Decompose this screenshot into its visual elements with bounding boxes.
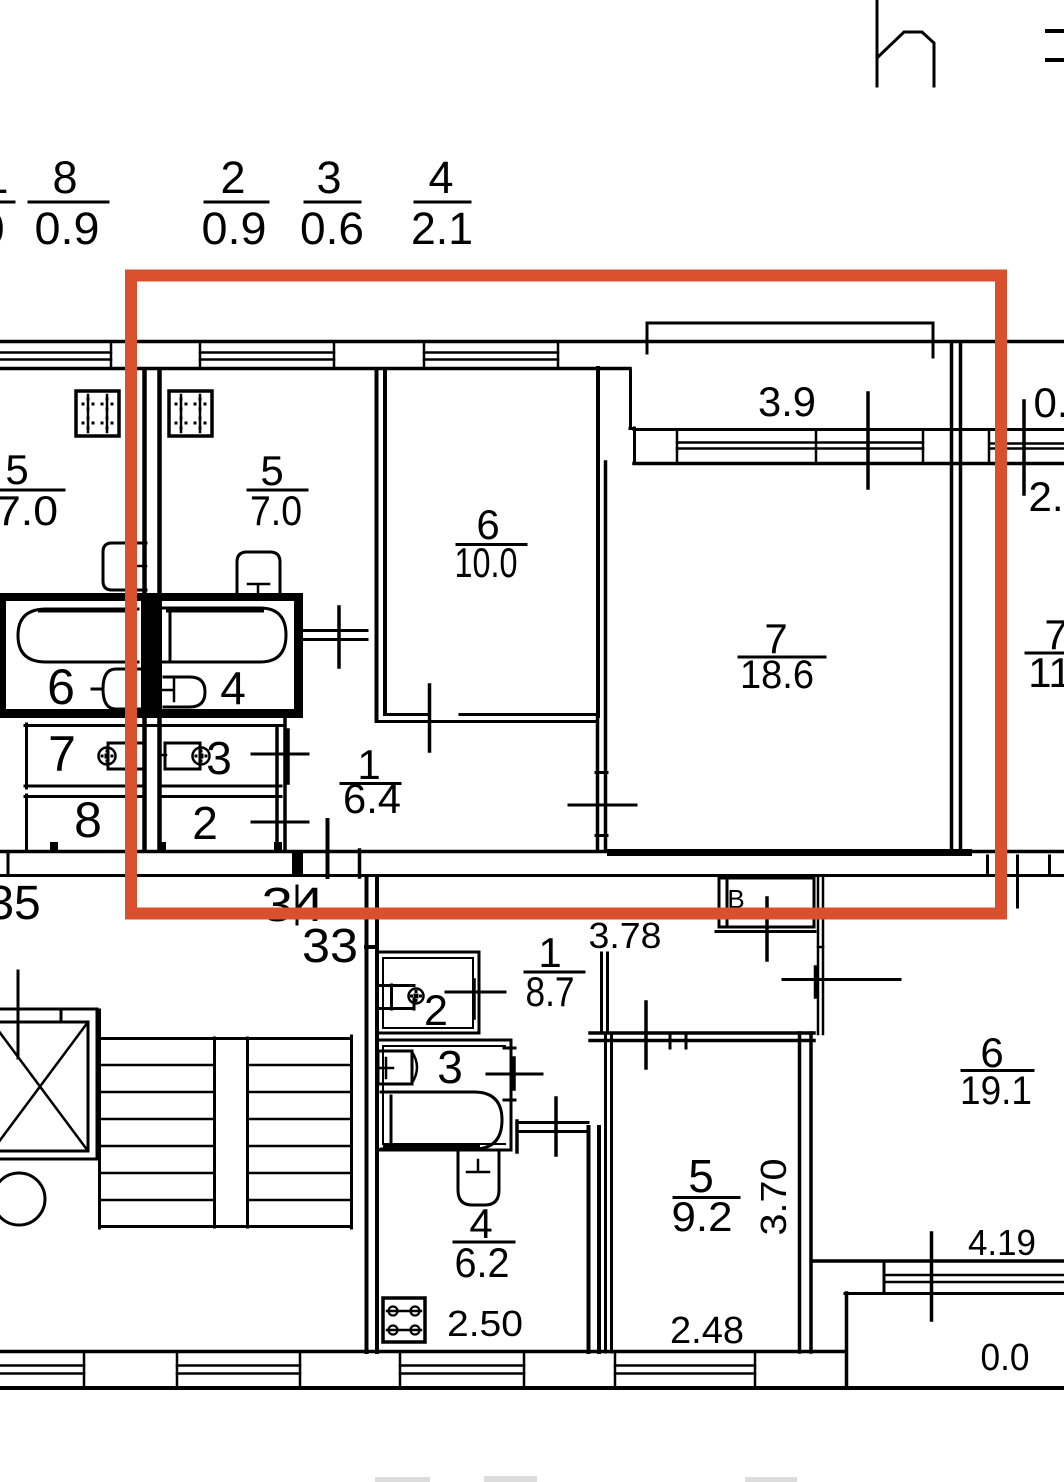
svg-text:2: 2 xyxy=(220,152,245,203)
door lintel kitchen apt34 to hallway xyxy=(303,631,367,640)
svg-text:4.19: 4.19 xyxy=(968,1222,1036,1263)
label fraction 4/2.1 xyxy=(411,152,473,254)
svg-text:3.78: 3.78 xyxy=(589,915,662,956)
bathtub apt34 room 4 xyxy=(161,608,286,662)
wall stair left xyxy=(98,1010,101,1228)
dimension cross at elevator top left xyxy=(0,971,43,1058)
wall room 7 top inner line xyxy=(634,462,1064,466)
dimension tick kitchen door xyxy=(337,607,341,667)
svg-text:0.9: 0.9 xyxy=(35,203,100,254)
elevator shaft inner box with diagonals xyxy=(0,1022,88,1151)
svg-text:0: 0 xyxy=(0,203,5,254)
toilet apt35 room 7 xyxy=(99,743,146,769)
door lintel kitchen apt33 xyxy=(517,1121,588,1152)
window W1 top wall xyxy=(0,343,111,367)
svg-text:3: 3 xyxy=(437,1041,463,1093)
stair treads left flight xyxy=(101,1065,214,1200)
corridor stubs right section xyxy=(988,856,1050,874)
wall apt35 hall8 left xyxy=(25,795,28,849)
wall bathroom block right (thick) xyxy=(294,593,303,718)
stair landing top line xyxy=(101,1037,351,1040)
bathtub apt33 xyxy=(381,1092,502,1149)
ventilation shaft box xyxy=(716,878,815,932)
dimension line apt33 entry door xyxy=(783,967,900,997)
svg-text:4: 4 xyxy=(428,152,453,203)
wall room3 right pair xyxy=(277,716,285,850)
wall bathroom block top (thick) xyxy=(0,593,303,601)
wall top band inner line xyxy=(0,367,630,371)
dimension line right of hall 2 xyxy=(252,821,308,824)
label fraction 2/0.9 xyxy=(202,152,269,254)
svg-text:2: 2 xyxy=(424,987,448,1035)
sink apt35 bathroom xyxy=(92,669,141,709)
label fraction 1/8.7 hallway apt33 xyxy=(525,929,584,1015)
door jamb nubs on corridor top wall xyxy=(50,842,282,850)
window room 7 band glass lines xyxy=(677,430,923,463)
svg-text:3: 3 xyxy=(206,732,232,784)
svg-text:0.0: 0.0 xyxy=(981,1337,1030,1379)
label fraction 5/7.0 apt35 kitchen (cut) xyxy=(0,446,64,534)
washbasin room 2 xyxy=(377,985,424,1009)
wall room7/room8 divider apt35 xyxy=(25,786,145,797)
elevator shaft outer box xyxy=(0,1009,97,1159)
wall hall/room6 pair upper xyxy=(818,877,823,1034)
svg-text:7: 7 xyxy=(48,726,76,782)
wall toilet row top line xyxy=(25,724,284,727)
svg-text:2.: 2. xyxy=(1028,473,1063,520)
garbage chute circle xyxy=(0,1173,45,1225)
loggia left wall xyxy=(845,1293,849,1388)
wall room 7 left lower line xyxy=(604,462,608,851)
toilet room 3 apt33 xyxy=(378,1051,417,1084)
dimension cross room 3 xyxy=(487,1058,542,1089)
label fraction 3/0.6 xyxy=(300,152,364,254)
wall center pair below block xyxy=(145,718,160,849)
wall kitchen apt33 right pair xyxy=(589,1127,600,1352)
wall bottom band top line xyxy=(0,1350,846,1354)
door jambs room 3 right wall xyxy=(504,1048,515,1100)
wall room 7 bottom (thick) xyxy=(607,849,972,856)
window B3 bottom wall xyxy=(400,1353,524,1386)
toilet apt34 room 3 xyxy=(159,743,210,769)
bathtub apt35 room 6 xyxy=(18,609,138,662)
corridor stub thick at x297 xyxy=(292,853,303,874)
svg-text:7.0: 7.0 xyxy=(0,487,58,534)
svg-text:2.50: 2.50 xyxy=(447,1303,523,1344)
svg-text:33: 33 xyxy=(302,920,358,973)
wall stairwell right pair xyxy=(366,877,377,1352)
window B1 bottom wall xyxy=(0,1353,84,1386)
balcony left side wall xyxy=(633,428,636,463)
dimension tick kitchen apt33 door xyxy=(554,1098,558,1155)
kitchen sink apt33 xyxy=(458,1151,499,1205)
svg-text:8: 8 xyxy=(52,152,77,203)
corridor partition x327 xyxy=(326,820,330,877)
stair treads right flight xyxy=(248,1065,351,1200)
svg-text:1: 1 xyxy=(0,152,9,203)
stove 2-burner kitchen apt33 xyxy=(383,1298,425,1342)
balcony outline top xyxy=(647,323,933,357)
wall balcony bottom / room 7 window sill line xyxy=(634,428,1064,431)
svg-text:3.9: 3.9 xyxy=(758,378,816,425)
wall room 6 bottom double line xyxy=(377,715,596,722)
bathroom 3 box apt33 xyxy=(377,1040,511,1150)
wall stub below corridor right xyxy=(1016,877,1019,907)
wall room 6 right / room 7 left upper xyxy=(596,368,600,716)
dimension tick room 6 door xyxy=(428,685,432,751)
stove 4-burner apt35 kitchen xyxy=(76,391,119,436)
label fraction 5/9.2 room 5 xyxy=(672,1150,740,1240)
svg-text:2.1: 2.1 xyxy=(411,203,473,254)
dimension tick through right window xyxy=(1022,401,1026,494)
svg-text:18.6: 18.6 xyxy=(740,653,814,697)
symbol h top right xyxy=(877,1,934,86)
wall apt35 toilet left xyxy=(25,724,28,788)
ladder rungs on room1-room7 wall xyxy=(596,773,607,836)
dimension line hallway door to room 7 xyxy=(569,804,636,807)
wall between apt34 kitchen and room 6 (double) xyxy=(377,370,386,721)
corridor stub x359 xyxy=(358,850,362,877)
label fraction 6/10.0 room 6 xyxy=(455,501,527,586)
svg-text:9.2: 9.2 xyxy=(672,1193,733,1240)
label fraction 5/7.0 apt34 kitchen xyxy=(248,447,307,534)
stair center stringer xyxy=(215,1038,248,1227)
sink apt35 kitchen xyxy=(103,543,146,590)
label fraction (cut at left edge) xyxy=(0,152,14,254)
label fraction 4/6.2 kitchen apt33 xyxy=(454,1200,514,1286)
svg-text:3: 3 xyxy=(316,152,341,203)
svg-text:6: 6 xyxy=(47,659,75,715)
sink apt34 kitchen xyxy=(237,552,280,597)
dimension cross room 2 xyxy=(446,980,505,1018)
svg-text:6.4: 6.4 xyxy=(343,775,401,822)
dimension tick room5 top xyxy=(644,1002,648,1068)
wall bathroom block bottom (thick) xyxy=(0,709,303,718)
svg-text:5: 5 xyxy=(5,446,28,493)
window B2 bottom wall xyxy=(177,1353,300,1386)
label fraction 7/11 right edge xyxy=(1026,611,1064,696)
wall corridor top line xyxy=(0,850,1064,854)
wall room3/room2 divider apt34 xyxy=(161,786,281,797)
dimension tick window room6 lower xyxy=(930,1233,934,1320)
stair bottom line xyxy=(101,1225,351,1228)
dimension tick shaft xyxy=(765,898,769,960)
svg-text:11: 11 xyxy=(1028,649,1064,696)
wall top exterior line xyxy=(0,340,1064,344)
corridor stub left end xyxy=(7,853,10,874)
svg-text:0.: 0. xyxy=(1033,379,1064,426)
svg-text:0.9: 0.9 xyxy=(202,203,267,254)
wall room6 lower bottom xyxy=(814,1259,1064,1263)
faint footer text remnants xyxy=(375,1476,797,1482)
wall room 1 right line lower segment xyxy=(596,716,600,851)
svg-text:8.7: 8.7 xyxy=(526,968,575,1015)
label fraction 7/18.6 room 7 xyxy=(739,615,825,697)
svg-text:2: 2 xyxy=(192,797,218,849)
svg-text:4: 4 xyxy=(220,662,246,714)
wall room5 left pair xyxy=(606,1033,612,1352)
wall room5 right pair xyxy=(800,1033,812,1352)
svg-text:19.1: 19.1 xyxy=(960,1069,1032,1113)
wall between apt35 kitchen and apt34 kitchen (double) xyxy=(145,370,160,594)
window W3 top wall xyxy=(424,343,558,367)
wall stair right inner xyxy=(350,1036,353,1228)
label fraction 6/19.1 room 6 lower xyxy=(960,1029,1033,1113)
label fraction 8/0.9 xyxy=(29,152,108,254)
wall hallway apt33 right pair xyxy=(602,953,608,1033)
wall corridor bottom line xyxy=(0,874,1064,877)
label fraction 1/6.4 hallway room 1 xyxy=(341,741,401,822)
svg-text:3.70: 3.70 xyxy=(753,1159,794,1236)
wall bottom band bottom line xyxy=(0,1386,1064,1390)
sink apt34 bathroom xyxy=(163,677,205,707)
window right apartment glass lines xyxy=(989,430,1064,463)
red highlight rectangle of apartment 34 xyxy=(131,276,1001,914)
washroom 2 box apt33 xyxy=(377,952,479,1033)
nub on elevator top xyxy=(60,1009,63,1019)
svg-text:8: 8 xyxy=(74,792,102,848)
wall bathroom block left (thick) xyxy=(0,593,6,718)
wall step down from top band xyxy=(630,370,634,429)
svg-text:0.6: 0.6 xyxy=(300,203,364,254)
svg-text:7.0: 7.0 xyxy=(250,487,302,534)
window room6 lower xyxy=(845,1263,1064,1294)
window W2 top wall xyxy=(200,343,334,367)
wall bathroom block center (thick) xyxy=(141,593,162,718)
symbol marks right edge xyxy=(1047,31,1064,60)
wall room5 top double line with door xyxy=(590,1033,814,1048)
window B4 bottom wall xyxy=(615,1353,755,1386)
dimension tick through balcony window xyxy=(866,393,870,488)
stove 4-burner apt34 kitchen xyxy=(169,391,212,436)
dimension line right of toilet rooms xyxy=(252,730,308,783)
svg-text:6.2: 6.2 xyxy=(455,1239,510,1286)
svg-text:10.0: 10.0 xyxy=(455,539,518,586)
svg-text:35: 35 xyxy=(0,877,41,930)
svg-text:2.48: 2.48 xyxy=(670,1310,744,1352)
wall room 7 right (double) xyxy=(952,343,961,852)
dimension tick near 34 xyxy=(296,886,299,924)
